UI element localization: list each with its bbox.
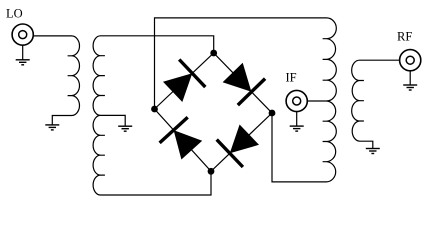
- node right junction: [269, 110, 276, 117]
- wire T2 secondary top to RF connector: [360, 59, 400, 61]
- svg-text:IF: IF: [286, 71, 297, 85]
- inductor T2 primary (ring side, centre-tapped to IF): [323, 18, 337, 182]
- wire T1 secondary bottom to ring bottom node: [101, 171, 212, 195]
- connector J3 (RF): [400, 50, 421, 71]
- inductor T1 secondary (centre-tapped): [93, 36, 105, 195]
- node left junction: [151, 106, 158, 113]
- ground (T1 centre tap): [118, 126, 132, 131]
- wire ring: diamond edges: [155, 53, 273, 171]
- inductor T1 primary (LO winding): [68, 36, 80, 116]
- diode D4 (bottom node to left node): [160, 117, 203, 159]
- wire T1 primary bottom to ground: [52, 116, 71, 125]
- svg-text:LO: LO: [6, 6, 23, 20]
- diode D3 (right node to bottom node): [217, 125, 259, 168]
- diode D2 (top node to right node): [223, 63, 266, 105]
- ground (T1 primary bottom): [45, 125, 59, 130]
- node bottom junction: [208, 168, 215, 175]
- connector J1 (LO): [12, 24, 33, 45]
- wire ring left node up and over to T2 primary top: [155, 18, 327, 109]
- inductor T2 secondary (RF winding): [352, 60, 364, 141]
- svg-text:RF: RF: [397, 30, 412, 44]
- ground (below RF connector): [403, 71, 417, 90]
- wire T1 secondary top to ring top node: [101, 36, 214, 53]
- wire ring right node down and over to T2 primary bottom: [272, 113, 327, 182]
- connector J2 (IF): [286, 90, 307, 111]
- ground (below IF connector): [290, 112, 304, 131]
- wire T2 secondary bottom to ground: [360, 141, 373, 148]
- node top junction: [210, 50, 217, 57]
- wire T1 centre tap to ground: [101, 115, 126, 126]
- wire LO connector to T1 primary: [33, 35, 71, 37]
- ground (T2 secondary bottom): [366, 149, 380, 154]
- ground (below LO connector): [16, 45, 30, 65]
- diode D1 (left node to top node): [163, 60, 205, 103]
- wire T2 centre tap to IF connector: [307, 100, 326, 102]
